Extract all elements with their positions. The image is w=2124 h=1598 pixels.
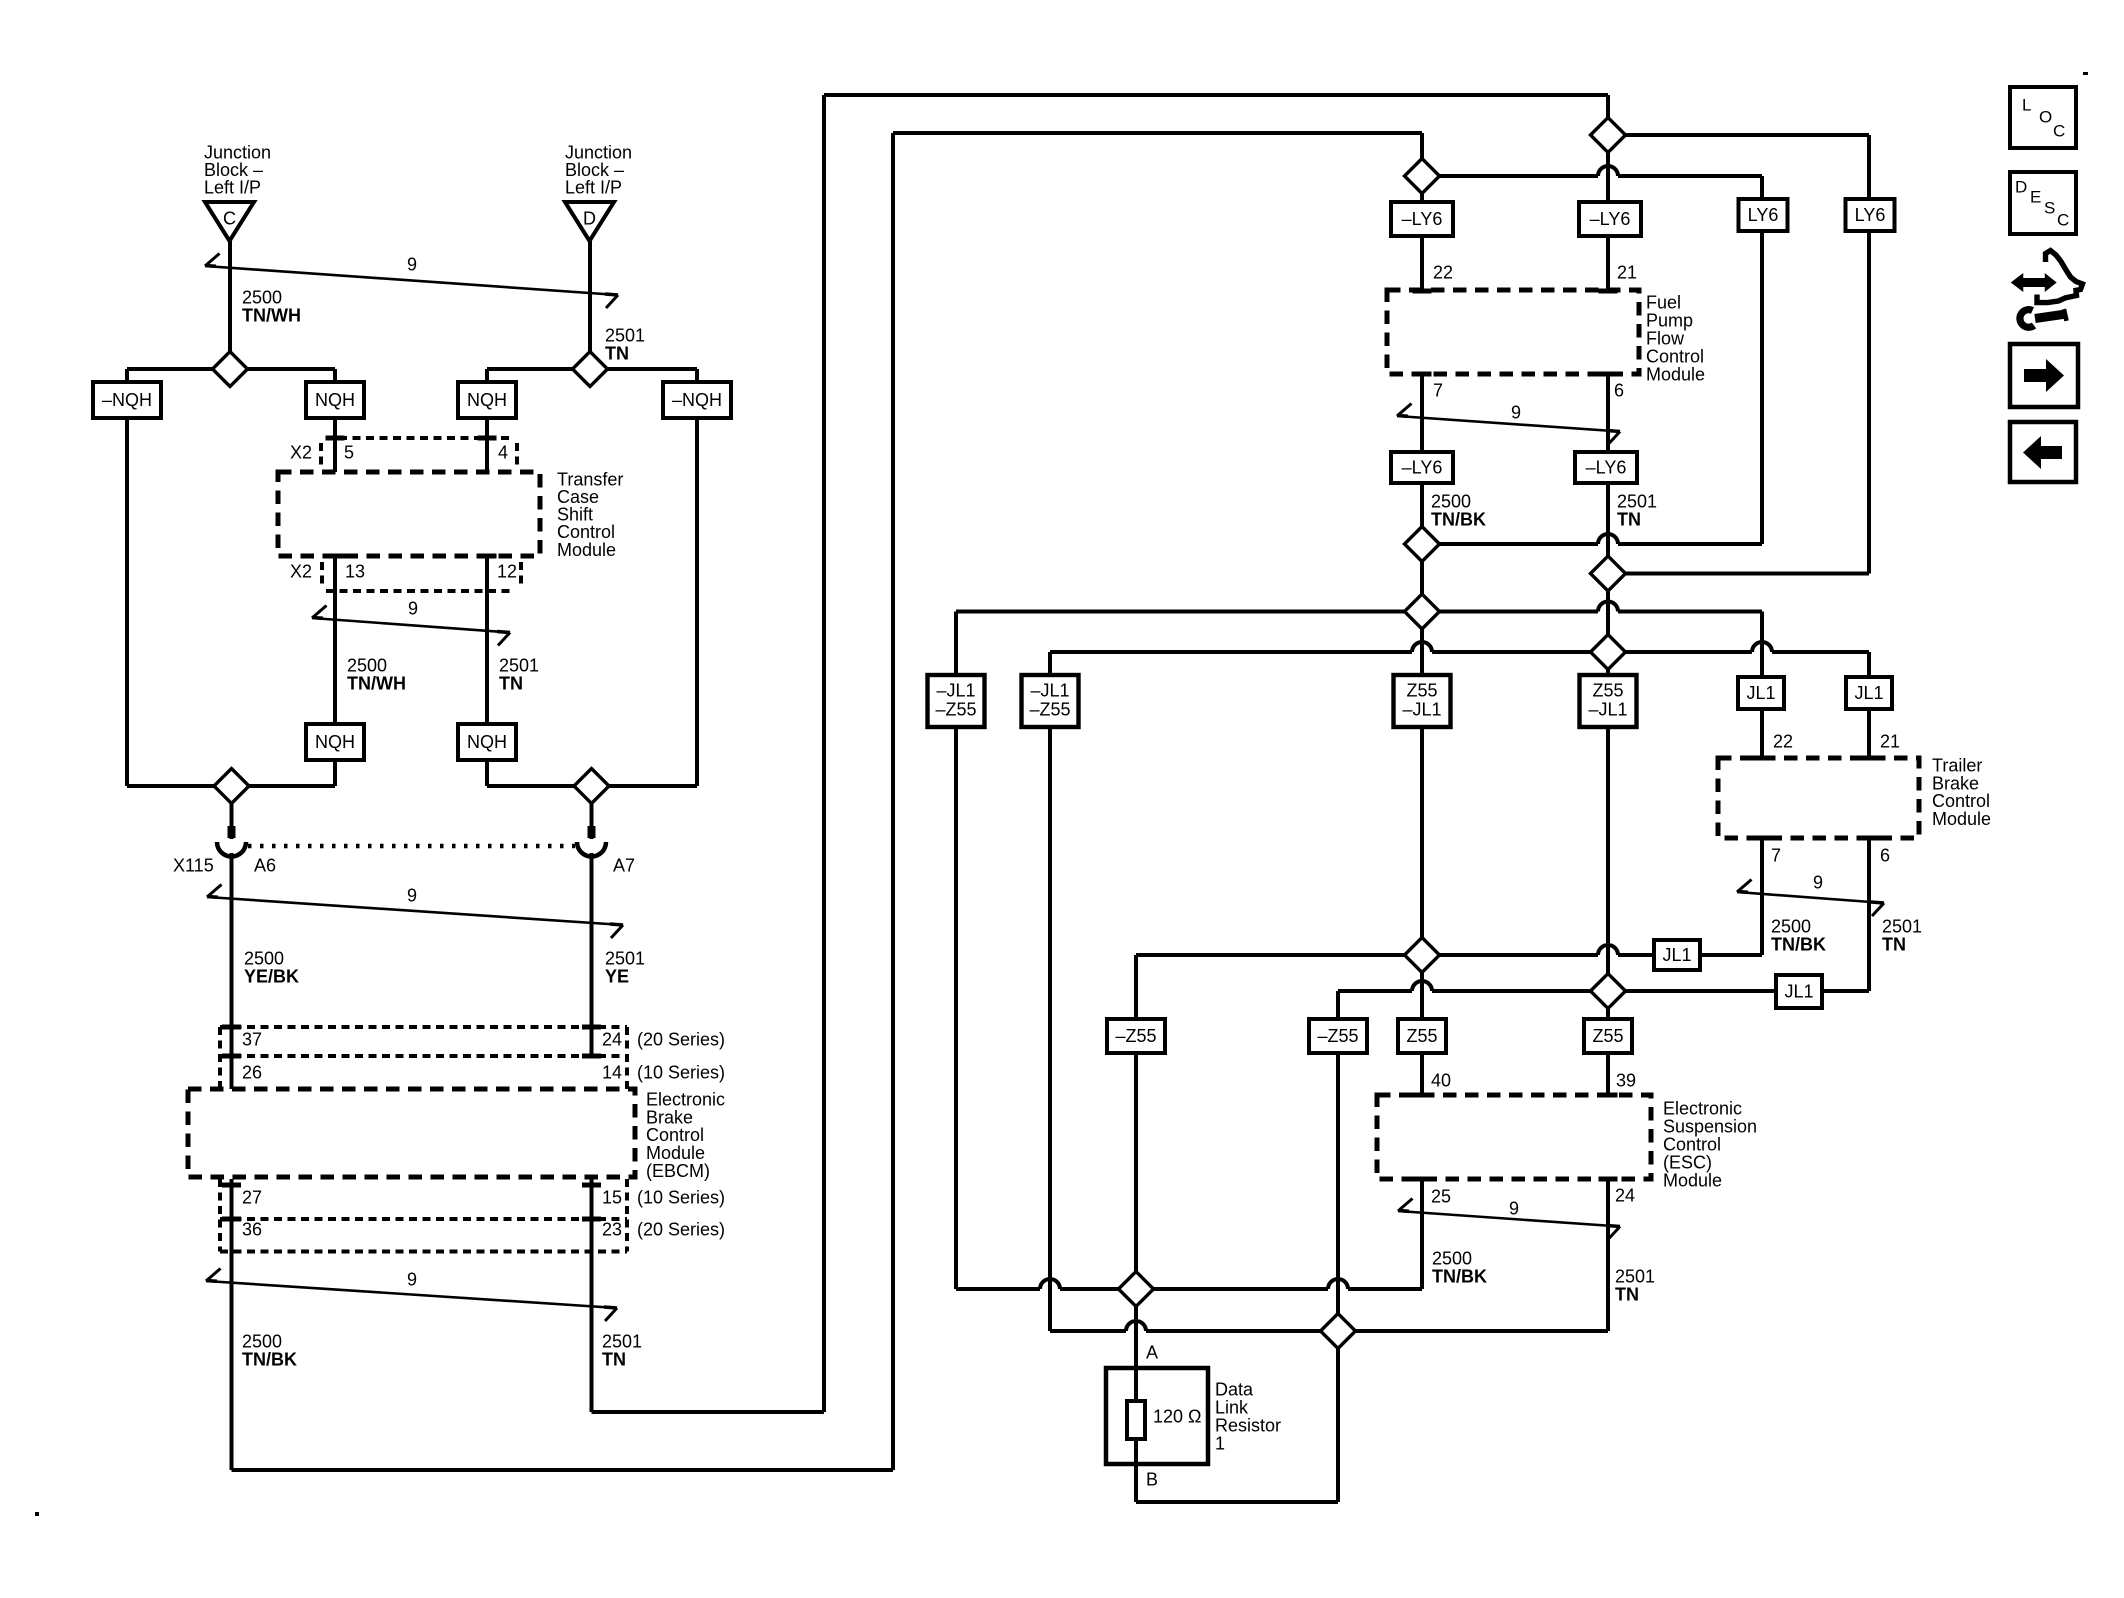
wire triangle-D drop 2501 TN [588, 241, 592, 369]
connector X2 bottom stubs [322, 562, 521, 584]
connector EBCM bottom row stubs [220, 1179, 627, 1252]
tick trailer p22 [1753, 756, 1772, 761]
svg-text:9: 9 [1813, 872, 1823, 892]
connector EBCM top row stubs [220, 1027, 627, 1089]
svg-text:C: C [2053, 121, 2065, 140]
tick pin12 [478, 554, 497, 559]
svg-text:Control: Control [1663, 1134, 1721, 1154]
wire H611 CAN bus to JL1 [956, 610, 1762, 614]
svg-text:Z55: Z55 [1406, 681, 1437, 701]
wire stub to -NQH box 1 [125, 369, 129, 382]
svg-text:TN: TN [605, 343, 629, 363]
leader 9 ebcm bottom [206, 1281, 617, 1308]
connector X115 cup A6 [217, 842, 246, 857]
module Fuel Pump Flow Control dashed box [1387, 290, 1639, 374]
svg-text:22: 22 [1433, 262, 1453, 282]
module Trailer Brake Control dashed box [1718, 758, 1919, 838]
svg-text:13: 13 [345, 561, 365, 581]
svg-text:–NQH: –NQH [672, 390, 722, 410]
wire H544 2500 bus [1422, 542, 1762, 546]
svg-text:9: 9 [407, 1269, 417, 1289]
wire bus2 right segment [487, 784, 697, 788]
svg-text:C: C [223, 208, 236, 228]
svg-text:27: 27 [242, 1187, 262, 1207]
hop H652 over v1762 [1752, 649, 1772, 654]
wire stub to NQH box 1 [333, 369, 337, 382]
wire -NQH2 to bus2 [695, 418, 699, 786]
tick EBCM p27 [222, 1183, 241, 1188]
wire pin 4 Transfer Case [485, 418, 489, 472]
svg-text:C: C [2057, 210, 2069, 229]
wire H175 diamond to LY6 riser [1422, 174, 1762, 178]
icon LOC box [2010, 87, 2076, 148]
connector EBCM top row lines [220, 1027, 627, 1056]
tick trailer p7 [1753, 836, 1772, 841]
svg-text:YE: YE [605, 966, 629, 986]
wire stub to NQH box 2 [485, 369, 489, 382]
svg-text:23: 23 [602, 1219, 622, 1239]
option box LY6 1 [1739, 199, 1788, 231]
svg-text:TN/BK: TN/BK [1432, 1266, 1487, 1286]
option box JL1 4 [1776, 975, 1822, 1008]
svg-text:Electronic: Electronic [1663, 1098, 1742, 1118]
splice diamond bus1-C [213, 352, 248, 387]
svg-text:NQH: NQH [467, 390, 507, 410]
svg-text:2501: 2501 [605, 948, 645, 968]
svg-text:–JL1: –JL1 [936, 681, 975, 701]
svg-text:120 Ω: 120 Ω [1153, 1406, 1202, 1426]
svg-text:2500: 2500 [242, 1331, 282, 1351]
tick pin5 [326, 436, 345, 441]
svg-text:2500: 2500 [244, 948, 284, 968]
svg-text:Flow: Flow [1646, 328, 1685, 348]
svg-text:Z55: Z55 [1592, 1026, 1623, 1046]
svg-text:D: D [2015, 177, 2027, 196]
svg-text:9: 9 [1511, 402, 1521, 422]
wire second riser to top [891, 133, 895, 1470]
icon back arrow box [2010, 422, 2076, 482]
splice diamond CAN-L B [1321, 1314, 1356, 1349]
option box NQH 2 [458, 382, 516, 418]
svg-text:15: 15 [602, 1187, 622, 1207]
tick esc p40 [1413, 1093, 1432, 1098]
svg-text:21: 21 [1880, 731, 1900, 751]
wire stub to -NQH box 2 [695, 369, 699, 382]
tick EBCM p14 [582, 1054, 601, 1059]
svg-text:–Z55: –Z55 [1029, 700, 1070, 720]
tick pin13 [326, 554, 345, 559]
splice diamond H611 [1405, 594, 1440, 629]
svg-text:2501: 2501 [1882, 916, 1922, 936]
module EBCM dashed box [188, 1089, 635, 1177]
svg-text:Left I/P: Left I/P [204, 178, 261, 198]
wire top feed 2501 [824, 93, 1608, 97]
svg-text:6: 6 [1880, 845, 1890, 865]
hop H1331 over v1136 [1126, 1328, 1146, 1333]
connector X115 dotted line [248, 844, 575, 849]
svg-text:TN: TN [1882, 934, 1906, 954]
svg-text:7: 7 [1433, 380, 1443, 400]
svg-text:14: 14 [602, 1062, 622, 1082]
svg-text:Z55: Z55 [1592, 681, 1623, 701]
svg-text:2501: 2501 [1617, 491, 1657, 511]
svg-text:YE/BK: YE/BK [244, 966, 299, 986]
svg-text:A: A [1146, 1342, 1158, 1362]
icon harness outline [2037, 251, 2083, 303]
option box NQH 3 [306, 724, 364, 760]
svg-text:Module: Module [1663, 1170, 1722, 1190]
svg-text:6: 6 [1614, 380, 1624, 400]
svg-text:Control: Control [1646, 346, 1704, 366]
svg-text:A6: A6 [254, 855, 276, 875]
option box -LY6 1 [1391, 202, 1453, 236]
splice diamond 2501 top [1591, 118, 1626, 153]
data link resistor box [1106, 1368, 1208, 1464]
svg-text:Module: Module [1646, 364, 1705, 384]
svg-text:39: 39 [1616, 1070, 1636, 1090]
svg-text:X2: X2 [290, 442, 312, 462]
svg-text:–JL1: –JL1 [1588, 700, 1627, 720]
leader 9 transfer case [312, 618, 510, 633]
svg-text:25: 25 [1431, 1186, 1451, 1206]
svg-text:TN/WH: TN/WH [347, 673, 406, 693]
wire pin 5 Transfer Case [333, 418, 337, 472]
svg-text:JL1: JL1 [1662, 945, 1691, 965]
svg-text:9: 9 [407, 254, 417, 274]
svg-text:Z55: Z55 [1406, 1026, 1437, 1046]
svg-text:TN/WH: TN/WH [242, 305, 301, 325]
svg-text:22: 22 [1773, 731, 1793, 751]
option box Z55 2 [1584, 1019, 1632, 1053]
wire NQH4 to bus2 [485, 760, 489, 786]
wire left riser to top [822, 95, 826, 1412]
svg-text:–LY6: –LY6 [1590, 209, 1631, 229]
svg-text:(ESC): (ESC) [1663, 1152, 1712, 1172]
svg-text:JL1: JL1 [1746, 683, 1775, 703]
svg-text:2500: 2500 [1431, 491, 1471, 511]
option box -NQH 2 [663, 382, 731, 418]
wire resistor B loop bottom [1136, 1500, 1338, 1504]
svg-text:–Z55: –Z55 [1115, 1026, 1156, 1046]
hop H175 over v1608 [1598, 173, 1618, 178]
svg-text:S: S [2044, 198, 2055, 217]
wire v1608 pin24 drop [1606, 1179, 1610, 1331]
svg-text:36: 36 [242, 1219, 262, 1239]
wire H1331 CAN-L bus [1050, 1329, 1608, 1333]
wire vLY6-1 riser [1760, 176, 1764, 544]
tick esc p24 [1599, 1177, 1618, 1182]
svg-text:Pump: Pump [1646, 310, 1693, 330]
wire bottom link 2501 TN horizontal [592, 1410, 825, 1414]
resistor R1 symbol [1127, 1401, 1145, 1439]
splice diamond CAN-H A [1119, 1272, 1154, 1307]
tick trailer p6 [1860, 836, 1879, 841]
icon wrench [2020, 310, 2068, 328]
option box JL1 2 [1846, 677, 1892, 709]
tick esc p39 [1599, 1093, 1618, 1098]
svg-text:4: 4 [498, 442, 508, 462]
svg-text:NQH: NQH [467, 732, 507, 752]
hop H1289 over v1050 [1040, 1286, 1060, 1291]
svg-text:(10 Series): (10 Series) [637, 1062, 725, 1082]
module Transfer Case Shift Control dashed box [278, 472, 540, 556]
splice diamond bus2 right [574, 769, 609, 804]
option box -Z55 2 [1309, 1019, 1367, 1053]
svg-text:TN/BK: TN/BK [1771, 934, 1826, 954]
svg-text:Fuel: Fuel [1646, 292, 1681, 312]
tick EBCM p36 [222, 1217, 241, 1222]
wire H955 to trailer pin7 [1136, 953, 1762, 957]
tick EBCM p37 [222, 1025, 241, 1030]
svg-text:TN: TN [602, 1349, 626, 1369]
connector X115 blade A6 [228, 826, 236, 838]
svg-text:A7: A7 [613, 855, 635, 875]
hop H652 over v1422 [1412, 649, 1432, 654]
wire H991 to trailer pin6 [1338, 989, 1869, 993]
splice diamond bus1-D [573, 352, 608, 387]
svg-text:X115: X115 [173, 855, 214, 875]
option box -LY6 4 [1575, 452, 1637, 483]
svg-text:12: 12 [497, 561, 517, 581]
hop H991 over v1422 [1412, 988, 1432, 993]
wire H652 CAN bus to JL1 [1050, 650, 1869, 654]
option box -LY6 3 [1391, 452, 1453, 483]
tick fuel p7 [1413, 372, 1432, 377]
svg-text:9: 9 [407, 885, 417, 905]
dot artifact bottom left [35, 1512, 39, 1516]
connector X115 cup A7 [577, 842, 606, 857]
junction block triangle C [205, 202, 254, 241]
svg-text:(10 Series): (10 Series) [637, 1187, 725, 1207]
wire v1608 mid [1606, 727, 1610, 1095]
svg-text:7: 7 [1771, 845, 1781, 865]
option box -JL1 -Z55 1 [928, 675, 985, 727]
icon forward arrow box [2010, 344, 2078, 407]
svg-text:2500: 2500 [1771, 916, 1811, 936]
svg-text:TN/BK: TN/BK [1431, 509, 1486, 529]
wire NQH3 to bus2 [333, 760, 337, 786]
wire bus2 left segment [127, 784, 335, 788]
connector X115 blade A7 [588, 826, 596, 838]
splice diamond H955 [1405, 938, 1440, 973]
svg-text:D: D [583, 208, 596, 228]
svg-text:Data: Data [1215, 1379, 1254, 1399]
svg-text:B: B [1146, 1469, 1158, 1489]
svg-text:2501: 2501 [1615, 1266, 1655, 1286]
tick EBCM p24 [582, 1025, 601, 1030]
wire X115 A6 upper [230, 786, 234, 839]
wire v1050 -JL1-Z55 feed [1048, 652, 1052, 1331]
splice diamond H652 [1591, 635, 1626, 670]
tick fuel p22 [1413, 289, 1432, 294]
tick EBCM p26 [222, 1054, 241, 1059]
icon DESC box [2010, 172, 2076, 234]
splice diamond 2500 top [1405, 159, 1440, 194]
svg-text:(20 Series): (20 Series) [637, 1219, 725, 1239]
hop H955 over v1608 [1598, 952, 1618, 957]
wire vJL1-1 trailer pin22/7 [1760, 612, 1764, 956]
svg-text:Resistor: Resistor [1215, 1415, 1281, 1435]
wire vJL1-2 trailer pin21/6 [1867, 652, 1871, 991]
connector X2 bottom dashed line [326, 589, 512, 593]
option box NQH 1 [306, 382, 364, 418]
option box -LY6 2 [1579, 202, 1641, 236]
svg-text:–Z55: –Z55 [1317, 1026, 1358, 1046]
wire bus1 left segment [127, 367, 335, 371]
svg-text:–Z55: –Z55 [935, 700, 976, 720]
svg-text:–LY6: –LY6 [1586, 458, 1627, 478]
svg-text:2501: 2501 [602, 1331, 642, 1351]
option box NQH 4 [458, 724, 516, 760]
leader 9 esc [1398, 1211, 1620, 1227]
svg-text:TN: TN [1615, 1284, 1639, 1304]
svg-text:JL1: JL1 [1784, 982, 1813, 1002]
splice diamond 2501 mid [1591, 556, 1626, 591]
svg-text:2500: 2500 [347, 655, 387, 675]
svg-text:NQH: NQH [315, 390, 355, 410]
svg-text:24: 24 [602, 1029, 622, 1049]
wire H573 2501 bus [1608, 572, 1869, 576]
svg-text:TN/BK: TN/BK [242, 1349, 297, 1369]
leader 9 top junction [205, 266, 618, 295]
wire A6 2500 YE/BK to EBCM [230, 853, 234, 1089]
svg-text:Left I/P: Left I/P [565, 178, 622, 198]
wire top feed 2500 [893, 131, 1422, 135]
svg-text:2501: 2501 [499, 655, 539, 675]
dot artifact top right [2083, 72, 2088, 75]
module ESC dashed box [1377, 1095, 1651, 1179]
svg-text:E: E [2030, 187, 2041, 206]
splice diamond 2500 mid [1405, 527, 1440, 562]
wire resistor internal [1134, 1368, 1138, 1464]
wire v1136 resistor B lead [1134, 1464, 1138, 1502]
wire v1608 upper [1606, 95, 1610, 291]
svg-text:–LY6: –LY6 [1402, 209, 1443, 229]
option box Z55 -JL1 2 [1580, 675, 1637, 727]
tick pin4 [478, 436, 497, 441]
option box Z55 -JL1 1 [1394, 675, 1451, 727]
splice diamond H991 [1591, 974, 1626, 1009]
svg-text:2500: 2500 [1432, 1248, 1472, 1268]
icon harness double arrow [2012, 275, 2056, 291]
svg-text:X2: X2 [290, 561, 312, 581]
tick EBCM p15 [582, 1183, 601, 1188]
svg-text:37: 37 [242, 1029, 262, 1049]
svg-text:O: O [2039, 107, 2052, 126]
wire v1422 upper [1420, 133, 1424, 291]
tick fuel p21 [1599, 289, 1618, 294]
svg-text:21: 21 [1617, 262, 1637, 282]
svg-text:(20 Series): (20 Series) [637, 1029, 725, 1049]
option box -JL1 -Z55 2 [1022, 675, 1079, 727]
svg-text:TN: TN [499, 673, 523, 693]
hop H611 over v1608 [1598, 609, 1618, 614]
svg-text:24: 24 [1615, 1185, 1635, 1205]
wire pin 13 2500 TN/WH [333, 556, 337, 724]
tick fuel p6 [1599, 372, 1618, 377]
svg-text:Link: Link [1215, 1397, 1249, 1417]
option box LY6 2 [1846, 199, 1895, 231]
connector EBCM bottom row lines [220, 1219, 627, 1252]
svg-text:NQH: NQH [315, 732, 355, 752]
svg-text:5: 5 [344, 442, 354, 462]
wire bottom link 2500 TN/BK horizontal [232, 1468, 894, 1472]
wire EBCM pin15 2501 TN [590, 1179, 594, 1412]
option box -NQH 1 [93, 382, 161, 418]
wire H135 diamond to LY6 riser [1608, 133, 1869, 137]
svg-text:Suspension: Suspension [1663, 1116, 1757, 1136]
svg-text:2501: 2501 [605, 325, 645, 345]
leader 9 fuel [1397, 416, 1620, 432]
svg-text:Module: Module [1932, 809, 1991, 829]
wire triangle-C drop 2500 TN/WH [228, 241, 232, 369]
connector X2 top dashed line [339, 436, 514, 440]
tick esc p25 [1413, 1177, 1432, 1182]
svg-text:–JL1: –JL1 [1402, 700, 1441, 720]
svg-text:JL1: JL1 [1854, 683, 1883, 703]
wire A7 2501 YE to EBCM [590, 853, 594, 1056]
svg-text:LY6: LY6 [1748, 205, 1779, 225]
connector X2 top stubs [321, 443, 517, 465]
wire EBCM pin27 2500 TN/BK [230, 1179, 234, 1470]
svg-text:Module: Module [557, 540, 616, 560]
wire v1338 -Z55 CAN-L [1336, 991, 1340, 1331]
junction block triangle D [565, 202, 614, 241]
leader 9 trailer [1737, 892, 1884, 903]
option box JL1 1 [1738, 677, 1784, 709]
option box Z55 1 [1398, 1019, 1446, 1053]
wire vLY6-2 riser [1867, 135, 1871, 574]
svg-text:40: 40 [1431, 1070, 1451, 1090]
leader 9 X115 [207, 897, 623, 925]
svg-text:9: 9 [408, 598, 418, 618]
wire -NQH1 to bus2 [125, 418, 129, 786]
svg-text:LY6: LY6 [1855, 205, 1886, 225]
wire v956 -JL1-Z55 feed [954, 612, 958, 1290]
wire X115 A7 upper [590, 786, 594, 839]
option box JL1 3 [1654, 940, 1700, 970]
svg-text:–LY6: –LY6 [1402, 458, 1443, 478]
splice diamond bus2 left [214, 769, 249, 804]
wire H1289 CAN-H bus [956, 1287, 1422, 1291]
wire v1136 -Z55 CAN-H [1134, 955, 1138, 1368]
svg-text:(EBCM): (EBCM) [646, 1161, 710, 1181]
tick EBCM p23 [582, 1217, 601, 1222]
svg-text:9: 9 [1509, 1198, 1519, 1218]
svg-text:TN: TN [1617, 509, 1641, 529]
wire resistor B loop riser [1336, 1331, 1340, 1502]
svg-text:L: L [2022, 95, 2031, 114]
svg-text:–NQH: –NQH [102, 390, 152, 410]
svg-text:2500: 2500 [242, 287, 282, 307]
tick trailer p21 [1860, 756, 1879, 761]
wire v1422 pin7 to Z55-JL1 [1420, 374, 1424, 675]
wire v1422 mid [1420, 727, 1424, 1095]
wire v1608 pin6 to Z55-JL1 [1606, 374, 1610, 675]
option box -Z55 1 [1107, 1019, 1165, 1053]
wire bus1 right segment [487, 367, 697, 371]
hop H544 over v1608 [1598, 541, 1618, 546]
svg-text:1: 1 [1215, 1433, 1225, 1453]
svg-text:–JL1: –JL1 [1030, 681, 1069, 701]
svg-text:26: 26 [242, 1062, 262, 1082]
hop H1289 over v1338 [1328, 1286, 1348, 1291]
wire pin 12 2501 TN [485, 556, 489, 724]
wire v1422 pin25 drop [1420, 1179, 1424, 1289]
